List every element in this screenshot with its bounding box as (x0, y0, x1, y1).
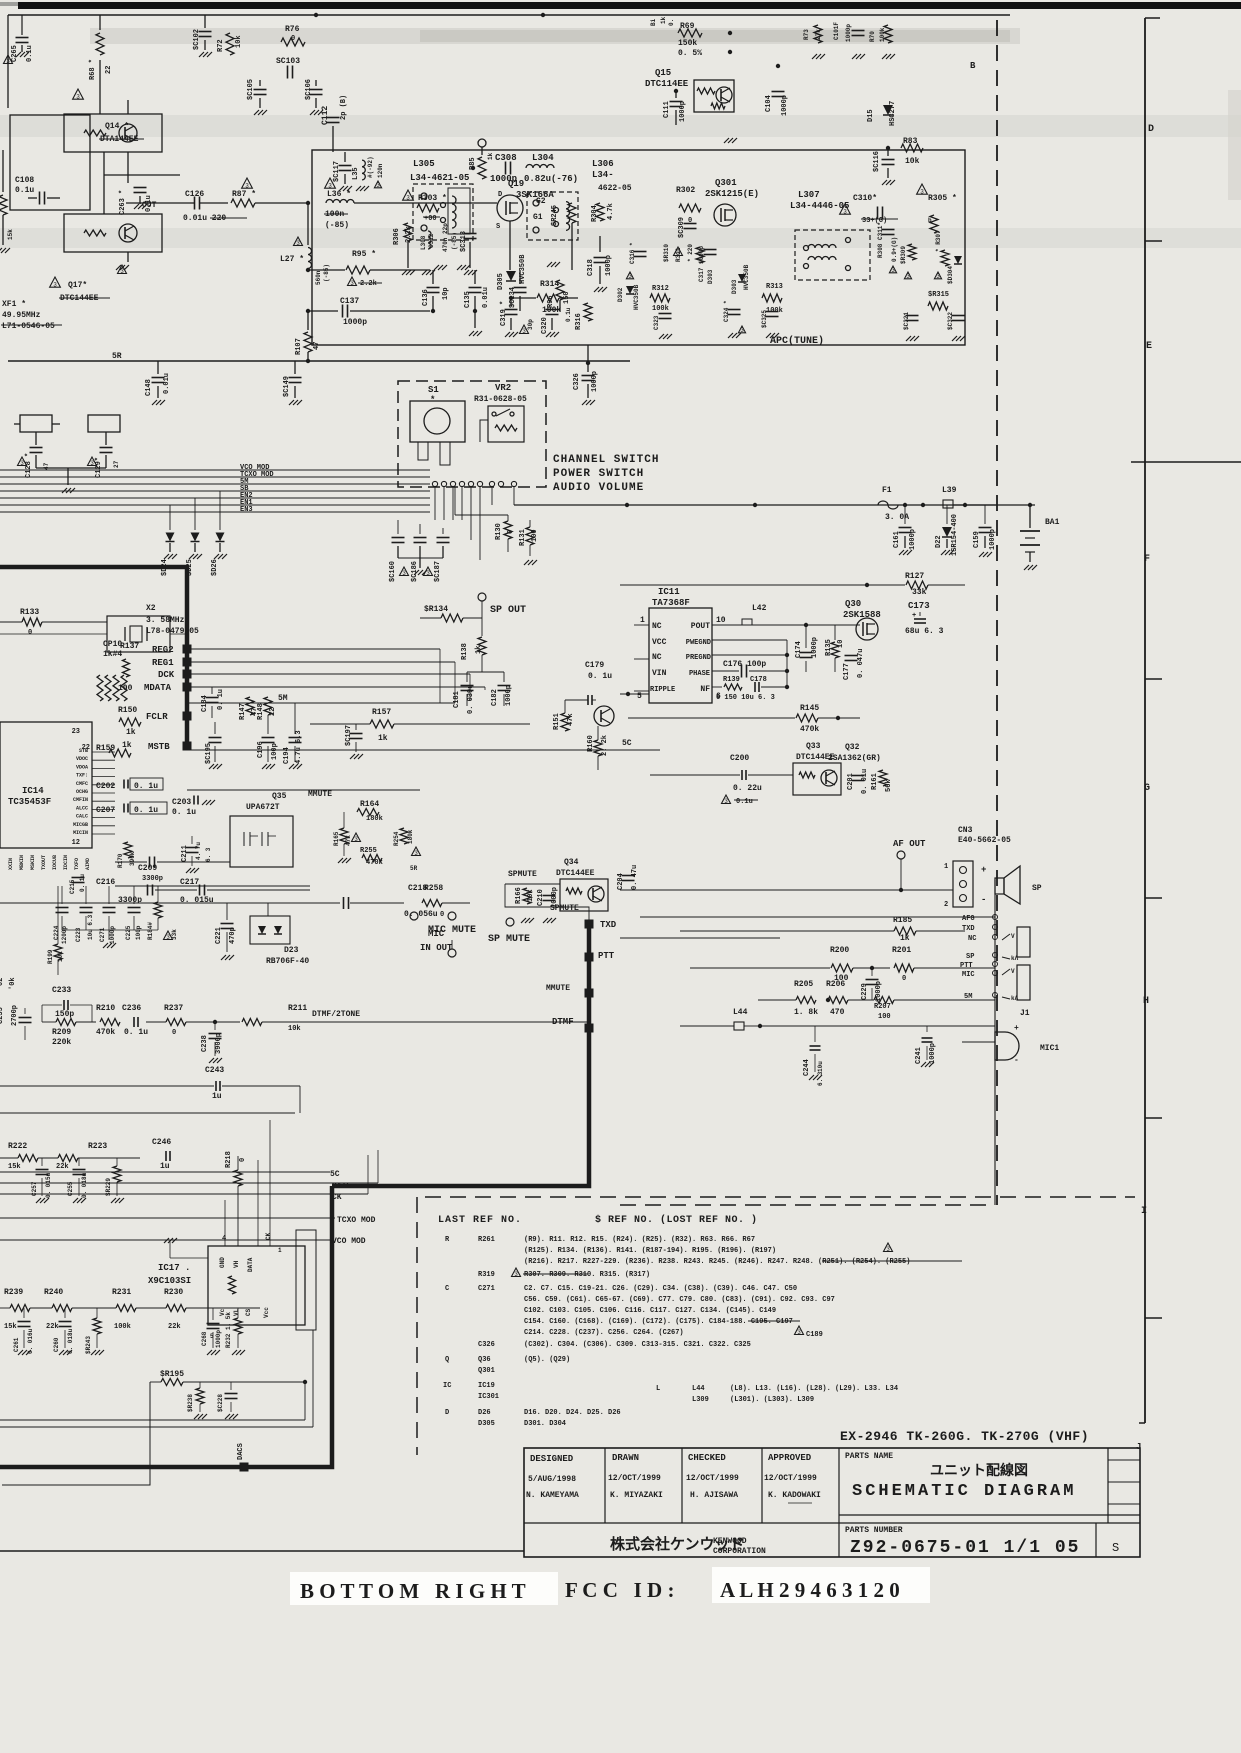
svg-text:D: D (445, 1409, 449, 1417)
crystal X2 box (107, 616, 170, 652)
svg-text:VH: VH (233, 1260, 240, 1268)
svg-text:Q301: Q301 (478, 1367, 495, 1375)
svg-text:R255: R255 (360, 847, 377, 855)
svg-text:2. 2k: 2. 2k (601, 735, 609, 756)
svg-text:G: G (1144, 783, 1150, 794)
svg-text:10p: 10p (442, 287, 450, 300)
svg-text:CK: CK (265, 1232, 272, 1240)
svg-text:MSTB: MSTB (148, 742, 170, 752)
svg-text:R223: R223 (88, 1142, 107, 1151)
svg-text:R130: R130 (495, 523, 503, 540)
svg-text:C: C (445, 1285, 449, 1293)
svg-text:H: H (1143, 996, 1149, 1007)
svg-text:RB706F-40: RB706F-40 (266, 957, 309, 966)
svg-text:IOCUB: IOCUB (52, 855, 58, 870)
svg-text:1000p: 1000p (490, 174, 517, 184)
MIC MUTE terminal (448, 949, 456, 957)
ground L305 (439, 240, 441, 262)
diode D23 (250, 916, 290, 944)
svg-text:STB: STB (79, 748, 88, 754)
svg-text:X2: X2 (146, 604, 156, 613)
wire top rail (8, 14, 1010, 16)
svg-text:C224: C224 (53, 925, 60, 940)
svg-text:VIN: VIN (652, 669, 667, 678)
svg-text:0.9+(G): 0.9+(G) (891, 237, 898, 262)
svg-text:$C197: $C197 (345, 725, 353, 746)
svg-text:C104: C104 (765, 95, 773, 112)
svg-text:4622-05: 4622-05 (598, 184, 632, 193)
svg-text:(R9). R11. R12. R15. (R24). (R: (R9). R11. R12. R15. (R24). (R25). (R32)… (524, 1236, 755, 1244)
wires to DTMF (470, 902, 589, 904)
svg-text:D305: D305 (497, 273, 505, 290)
svg-text:5R: 5R (410, 865, 418, 872)
svg-text:3. 0A: 3. 0A (885, 513, 909, 522)
svg-text:1k: 1k (378, 734, 388, 743)
svg-text:100: 100 (878, 1013, 891, 1021)
ground L306 (552, 240, 554, 258)
svg-text:D: D (1148, 124, 1154, 135)
svg-text:B O T T O M R I G H T: B O T T O M R I G H T (300, 1579, 526, 1603)
svg-text:3300p: 3300p (142, 875, 163, 883)
svg-text:*: * (430, 395, 435, 405)
svg-text:C320: C320 (541, 317, 549, 334)
svg-text:C215: C215 (69, 879, 76, 894)
svg-text:12/OCT/1999: 12/OCT/1999 (686, 1474, 739, 1483)
svg-text:2: 2 (944, 901, 948, 909)
svg-text:1k#4: 1k#4 (103, 650, 122, 659)
svg-text:$C195: $C195 (205, 743, 213, 764)
svg-text:R314: R314 (540, 280, 559, 289)
svg-text:C316 *: C316 * (629, 242, 636, 264)
svg-text:470k: 470k (96, 1028, 115, 1037)
svg-text:3: 3 (843, 208, 847, 215)
svg-text:4.7u 6.3: 4.7u 6.3 (295, 730, 303, 764)
svg-text:0: 0 (440, 911, 444, 919)
svg-text:0: 0 (291, 35, 295, 43)
svg-text:Q17*: Q17* (68, 281, 87, 290)
svg-text:TXD: TXD (962, 925, 975, 933)
svg-text:L308: L308 (420, 235, 427, 250)
svg-text:R205: R205 (794, 980, 813, 989)
capacitor SC149 (294, 361, 296, 374)
resistor R68 (99, 15, 101, 30)
svg-text:NC: NC (968, 935, 976, 943)
box C108 (10, 115, 90, 210)
svg-text:* 220: * 220 (687, 244, 694, 262)
svg-text:R311: R311 (675, 247, 682, 262)
svg-text:R230: R230 (164, 1288, 183, 1297)
svg-text:Z92-0675-01 1/1 05: Z92-0675-01 1/1 05 (850, 1538, 1080, 1558)
svg-text:R231: R231 (112, 1288, 131, 1297)
svg-text:N. KAMEYAMA: N. KAMEYAMA (526, 1491, 579, 1500)
wires bus diagonal runs (377, 1150, 379, 1183)
svg-text:Q14 *: Q14 * (105, 122, 129, 131)
svg-text:C2. C7. C15. C19-21. C26. (C29: C2. C7. C15. C19-21. C26. (C29). C34. (C… (524, 1285, 797, 1293)
svg-text:Q35: Q35 (272, 792, 287, 801)
section tick marks (1145, 17, 1160, 19)
svg-text:$C187: $C187 (434, 561, 442, 582)
capacitor C148 (157, 361, 159, 374)
svg-text:CS: CS (245, 1308, 252, 1316)
svg-text:X9C103SI: X9C103SI (148, 1276, 191, 1286)
svg-text:0: 0 (902, 975, 906, 983)
svg-text:SP: SP (1032, 884, 1042, 893)
svg-text:EN3: EN3 (240, 506, 253, 514)
IC17 ground (170, 1257, 208, 1259)
svg-text:SP OUT: SP OUT (490, 605, 526, 616)
svg-text:100k: 100k (542, 306, 561, 315)
svg-text:C161: C161 (893, 531, 901, 548)
svg-text:DTC144EE: DTC144EE (556, 869, 595, 878)
svg-text:10: 10 (716, 616, 726, 625)
svg-text:$ REF NO. (LOST REF NO. ): $ REF NO. (LOST REF NO. ) (595, 1214, 758, 1226)
svg-text:Q301: Q301 (715, 178, 737, 188)
wire Q19 source down (509, 221, 511, 270)
svg-text:0. 039u: 0. 039u (467, 685, 475, 714)
svg-text:R304: R304 (591, 205, 599, 222)
svg-text:1u: 1u (212, 1092, 222, 1101)
svg-text:C174: C174 (795, 641, 803, 658)
MIC IN OUT terminals (410, 912, 418, 920)
SP OUT terminal (478, 593, 486, 601)
switch box S1 VR2 (398, 381, 546, 487)
svg-text:(C302). C304. (C306). C309. C3: (C302). C304. (C306). C309. C313-315. C3… (524, 1341, 751, 1349)
svg-text:+: + (1014, 1024, 1019, 1033)
svg-text:2700p: 2700p (11, 1005, 19, 1026)
svg-text:1k: 1k (900, 934, 910, 943)
svg-text:L34-4446-05: L34-4446-05 (790, 201, 849, 211)
svg-text:APPROVED: APPROVED (768, 1453, 812, 1463)
svg-text:C217: C217 (180, 878, 199, 887)
svg-text:$C160: $C160 (389, 561, 397, 582)
svg-text:E40-5662-05: E40-5662-05 (958, 836, 1011, 845)
svg-text:1k: 1k (487, 152, 494, 160)
svg-text:R138: R138 (461, 643, 469, 660)
narrow box right IC17 (296, 1230, 316, 1330)
svg-text:C189: C189 (806, 1331, 823, 1339)
svg-text:G1: G1 (533, 213, 543, 222)
svg-text:Q33: Q33 (806, 742, 821, 751)
svg-text:27: 27 (113, 460, 120, 468)
svg-text:TA7368F: TA7368F (652, 598, 690, 608)
svg-text:K. KADOWAKI: K. KADOWAKI (768, 1491, 821, 1500)
svg-text:R302: R302 (676, 186, 695, 195)
svg-text:L34-: L34- (592, 170, 614, 180)
svg-text:NF: NF (700, 685, 710, 694)
svg-text:C225: C225 (125, 925, 132, 940)
svg-text:R222: R222 (8, 1142, 27, 1151)
svg-text:C261: C261 (13, 1337, 20, 1352)
svg-text:1000p: 1000p (343, 318, 367, 327)
svg-text:D23: D23 (284, 946, 299, 955)
svg-text:3: 3 (920, 188, 924, 195)
svg-text:$C325: $C325 (761, 310, 768, 328)
svg-text:POWER SWITCH: POWER SWITCH (553, 468, 644, 480)
svg-text:1SR154-400: 1SR154-400 (951, 514, 959, 556)
svg-text:3: 3 (245, 182, 249, 189)
svg-text:0: 0 (28, 629, 32, 637)
svg-text:F C C I D :: F C C I D : (565, 1578, 674, 1602)
wire left edge vertical (7, 15, 9, 108)
svg-text:$R309: $R309 (900, 246, 907, 264)
wires box terminals down (434, 487, 436, 520)
svg-text:C229: C229 (861, 983, 869, 1000)
svg-text:R319: R319 (478, 1271, 495, 1279)
svg-text:R151: R151 (553, 713, 561, 730)
inductor L36 (325, 178, 336, 188)
svg-text:NC: NC (652, 653, 662, 662)
svg-text:560n: 560n (315, 270, 322, 285)
svg-text:MBKIN: MBKIN (19, 855, 25, 870)
svg-text:12/OCT/1999: 12/OCT/1999 (764, 1474, 817, 1483)
capacitor C310 (840, 204, 851, 214)
svg-text:L78-0479-05: L78-0479-05 (146, 627, 199, 636)
svg-text:0. 015u: 0. 015u (180, 896, 214, 905)
svg-text:4: 4 (222, 1235, 226, 1243)
cluster C136 C135 SC134 R96 (360, 269, 572, 271)
TX section box (312, 150, 965, 345)
wire Q14-Q17 links (103, 152, 105, 214)
svg-text:SCHEMATIC DIAGRAM: SCHEMATIC DIAGRAM (852, 1482, 1076, 1501)
svg-text:R210: R210 (96, 1004, 115, 1013)
svg-text:3: 3 (891, 267, 895, 274)
svg-text:MIC1: MIC1 (1040, 1044, 1059, 1053)
svg-text:C173: C173 (908, 601, 930, 611)
svg-text:R239: R239 (4, 1288, 23, 1297)
svg-text:MMUTE: MMUTE (308, 790, 332, 799)
resistor R85 (509, 146, 511, 160)
capacitor SC117 (333, 151, 420, 153)
svg-text:kΛ: kΛ (1011, 995, 1019, 1002)
wire pin5 (620, 693, 649, 695)
svg-text:R150: R150 (118, 706, 137, 715)
diodes SD24 SD25 SD26 (169, 505, 171, 530)
svg-text:R308 C311*: R308 C311* (877, 222, 884, 258)
label BOTTOM RIGHT (290, 1572, 558, 1605)
svg-text:3: 3 (120, 268, 124, 275)
svg-text:G2: G2 (536, 197, 546, 206)
svg-text:0: 0 (239, 1158, 247, 1162)
svg-text:1000p: 1000p (845, 24, 852, 42)
svg-text:02: 02 (0, 978, 5, 986)
wires bus to right (187, 648, 440, 650)
svg-text:L304: L304 (532, 153, 554, 163)
svg-text:TXFO: TXFO (74, 858, 80, 870)
svg-text:IC: IC (443, 1382, 451, 1390)
svg-text:3: 3 (936, 273, 940, 280)
svg-text:L305: L305 (413, 159, 435, 169)
svg-text:R209: R209 (52, 1028, 71, 1037)
svg-text:R206: R206 (826, 980, 845, 989)
svg-text:A L H 2 9 4 6 3 1 2 0: A L H 2 9 4 6 3 1 2 0 (720, 1578, 900, 1602)
svg-text:IDCIN: IDCIN (63, 855, 69, 870)
svg-text:6. 3: 6. 3 (205, 847, 212, 862)
svg-text:3: 3 (296, 240, 300, 247)
svg-text:C238: C238 (201, 1035, 209, 1052)
svg-text:-: - (981, 895, 986, 905)
svg-text:R145: R145 (800, 704, 819, 713)
svg-text:V: V (1011, 933, 1015, 940)
svg-text:1k: 1k (126, 728, 136, 737)
svg-text:R161: R161 (871, 773, 879, 790)
svg-text:MIC: MIC (962, 971, 975, 979)
svg-text:RIPPLE: RIPPLE (650, 686, 675, 694)
svg-text:C319 *: C319 * (500, 301, 508, 326)
svg-text:1000p: 1000p (109, 926, 116, 944)
svg-text:UPA672T: UPA672T (246, 803, 280, 812)
svg-text:5/AUG/1998: 5/AUG/1998 (528, 1475, 576, 1484)
svg-text:R147: R147 (239, 703, 247, 720)
svg-text:L44: L44 (692, 1385, 705, 1393)
svg-text:$R315: $R315 (928, 291, 949, 299)
svg-text:100k: 100k (652, 305, 669, 313)
svg-text:R305 *: R305 * (928, 194, 957, 203)
squares TXD PTT MMUTE DTMF (585, 920, 594, 929)
svg-text:C323: C323 (653, 315, 660, 330)
svg-text:XF1 *: XF1 * (2, 300, 26, 309)
svg-text:30p: 30p (527, 319, 534, 330)
svg-text:0.01u: 0.01u (482, 287, 490, 308)
svg-text:L307: L307 (798, 190, 820, 200)
svg-text:R31-0628-05: R31-0628-05 (474, 395, 527, 404)
svg-text:5M: 5M (278, 694, 288, 703)
svg-text:1000p: 1000p (811, 637, 819, 658)
svg-text:C56. C59. (C61). C65-67. (C69): C56. C59. (C61). C65-67. (C69). C77. C79… (524, 1296, 835, 1304)
svg-text:1k: 1k (660, 16, 667, 24)
svg-text:C324 *: C324 * (723, 300, 730, 322)
svg-text:CORPORATION: CORPORATION (713, 1547, 766, 1556)
wire R72 to SC105 node (230, 67, 316, 69)
svg-text:R131: R131 (519, 529, 527, 546)
svg-text:R148: R148 (257, 703, 265, 720)
svg-text:120n: 120n (377, 163, 384, 178)
wire row y148 (543, 147, 965, 149)
svg-text:5: 5 (637, 692, 642, 701)
svg-text:$R238: $R238 (187, 1394, 194, 1412)
svg-text:ユニット配線図: ユニット配線図 (930, 1462, 1028, 1478)
label FCC ID (712, 1567, 930, 1603)
svg-text:SC103: SC103 (276, 57, 300, 66)
svg-text:PTT: PTT (960, 962, 973, 970)
svg-text:C233: C233 (52, 986, 71, 995)
svg-text:$D304: $D304 (947, 266, 954, 284)
svg-text:CALC: CALC (76, 814, 88, 820)
svg-text:C246: C246 (152, 1138, 171, 1147)
svg-text:10k: 10k (905, 157, 920, 166)
wire long row (0, 1112, 295, 1114)
svg-text:C154. C160. (C168). (C169). (C: C154. C160. (C168). (C169). (C172). (C17… (524, 1318, 793, 1326)
svg-text:3: 3 (6, 58, 10, 65)
svg-text:R316: R316 (575, 313, 583, 330)
svg-text:1k: 1k (122, 741, 132, 750)
svg-text:Q36: Q36 (478, 1356, 491, 1364)
capacitor C263 (127, 175, 129, 183)
svg-text:0: 0 (172, 1029, 176, 1037)
svg-text:3: 3 (20, 460, 24, 467)
svg-text:R76: R76 (285, 25, 300, 34)
svg-text:390k: 390k (129, 851, 136, 866)
svg-text:0.1u: 0.1u (736, 798, 753, 806)
svg-text:SP: SP (966, 953, 974, 961)
capacitor C265 (21, 15, 23, 35)
vertical dashed boundary (996, 20, 998, 1205)
svg-text:XXIN: XXIN (8, 858, 14, 870)
svg-text:L35: L35 (352, 167, 360, 180)
svg-text:0. 047u: 0. 047u (857, 649, 865, 678)
svg-text:AF OUT: AF OUT (893, 839, 926, 849)
svg-text:(Q5). (Q29): (Q5). (Q29) (524, 1356, 570, 1364)
svg-text:68u 6. 3: 68u 6. 3 (905, 627, 944, 636)
svg-text:IC11: IC11 (658, 587, 680, 597)
svg-text:#(-92): #(-92) (367, 156, 374, 178)
svg-text:3: 3 (740, 327, 744, 334)
svg-text:VCO MOD: VCO MOD (332, 1237, 366, 1246)
svg-text:DTMF/2TONE: DTMF/2TONE (312, 1010, 360, 1019)
J1 boxes (1017, 927, 1030, 957)
svg-text:TXF:: TXF: (76, 773, 88, 779)
svg-text:+00: +00 (424, 215, 437, 223)
svg-text:R258: R258 (424, 884, 443, 893)
svg-text:IC301: IC301 (478, 1393, 499, 1401)
svg-text:R166: R166 (515, 887, 523, 904)
svg-text:22k: 22k (56, 1163, 69, 1171)
svg-text:R313: R313 (766, 283, 783, 291)
svg-text:0. 47u: 0. 47u (631, 865, 639, 890)
svg-text:3: 3 (797, 1329, 801, 1336)
svg-text:R207: R207 (874, 1003, 891, 1011)
svg-text:C214. C228. (C237). C256. C264: C214. C228. (C237). C256. C264. (C267) (524, 1329, 684, 1337)
svg-text:3: 3 (76, 93, 80, 100)
svg-text:3: 3 (376, 182, 380, 189)
svg-text:1: 1 (944, 863, 948, 871)
svg-text:L27 *: L27 * (280, 255, 304, 264)
svg-text:(-85): (-85) (325, 221, 349, 230)
svg-text:5C: 5C (330, 1170, 340, 1179)
svg-text:0. 015u: 0. 015u (45, 1172, 52, 1198)
svg-text:MIC: MIC (428, 929, 445, 939)
svg-text:1000p: 1000p (215, 1330, 222, 1348)
svg-text:PWEGND: PWEGND (686, 639, 711, 647)
svg-text:15k: 15k (7, 229, 14, 240)
svg-text:PARTS NUMBER: PARTS NUMBER (845, 1526, 903, 1535)
svg-text:K. MIYAZAKI: K. MIYAZAKI (610, 1491, 663, 1500)
svg-text:0. 1u: 0. 1u (588, 672, 612, 681)
svg-text:Q34: Q34 (564, 858, 579, 867)
svg-text:HSC277: HSC277 (889, 101, 897, 126)
svg-text:C159: C159 (973, 531, 981, 548)
svg-text:R184#: R184# (147, 922, 154, 940)
svg-text:B: B (970, 61, 976, 71)
svg-text:1000p: 1000p (679, 101, 687, 122)
svg-text:TXOUT: TXOUT (41, 855, 47, 870)
svg-text:-: - (1014, 1056, 1019, 1065)
svg-text:PARTS NAME: PARTS NAME (845, 1452, 893, 1461)
svg-text:D22: D22 (935, 535, 943, 548)
svg-text:TXD: TXD (600, 920, 617, 930)
svg-text:R95 *: R95 * (352, 250, 376, 259)
svg-text:22k: 22k (46, 1323, 59, 1331)
svg-text:$C228: $C228 (217, 1394, 224, 1412)
svg-text:R199: R199 (47, 949, 54, 964)
svg-text:TC35453F: TC35453F (8, 797, 51, 807)
svg-text:3: 3 (354, 836, 358, 843)
svg-text:DATA: DATA (247, 1257, 254, 1272)
svg-text:22: 22 (105, 66, 113, 74)
svg-text:$R243: $R243 (85, 1336, 92, 1354)
svg-text:L309: L309 (692, 1396, 709, 1404)
svg-text:C241: C241 (915, 1047, 923, 1064)
svg-text:C223: C223 (75, 927, 82, 942)
